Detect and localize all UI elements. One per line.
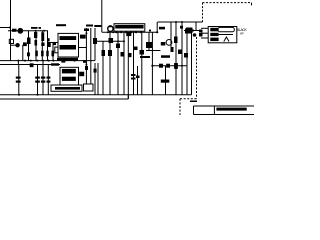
svg-text:9P: 9P <box>240 32 244 36</box>
